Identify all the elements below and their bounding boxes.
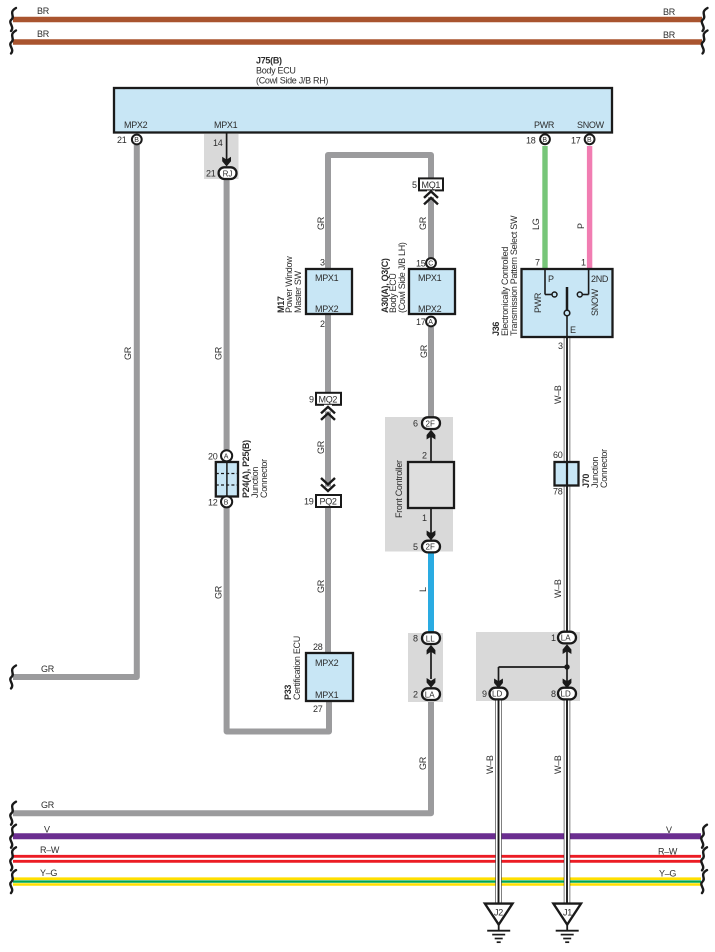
svg-text:W–B: W–B	[553, 385, 563, 404]
svg-text:60: 60	[553, 450, 563, 460]
connector MQ1 (5)	[412, 178, 443, 190]
pin 17 (A) of A30	[416, 317, 436, 327]
svg-text:Y–G: Y–G	[40, 868, 57, 878]
svg-text:Connector: Connector	[259, 459, 269, 498]
svg-text:2: 2	[413, 690, 418, 700]
svg-text:L: L	[418, 587, 428, 592]
wire GR (M17 pin2 down through MQ2/PQ2 to P33 pin 28)	[316, 314, 328, 653]
svg-text:27: 27	[313, 704, 323, 714]
svg-text:W–B: W–B	[485, 755, 495, 774]
svg-text:3: 3	[320, 258, 325, 268]
svg-text:RJ: RJ	[223, 169, 233, 178]
svg-text:C: C	[428, 261, 433, 268]
wire GR (col B: RJ down, right, up to P33 pin 27)	[214, 178, 330, 732]
svg-text:9: 9	[309, 394, 314, 404]
Front Controller block	[394, 430, 454, 540]
svg-text:3: 3	[558, 341, 563, 351]
svg-text:1: 1	[422, 513, 427, 523]
shaded area (Front Controller)	[385, 417, 453, 552]
svg-text:R–W: R–W	[40, 845, 60, 855]
connector MQ2 (9)	[309, 393, 341, 405]
connector 1 (LA) right column	[551, 632, 576, 644]
svg-text:Body ECU: Body ECU	[256, 66, 296, 76]
svg-text:LA: LA	[425, 690, 435, 699]
svg-text:LL: LL	[426, 634, 435, 643]
svg-text:2: 2	[422, 451, 427, 461]
svg-text:E: E	[570, 325, 576, 335]
junction connector P24(A), P25(B)	[208, 440, 269, 508]
pin 17 (B) SNOW of J75	[571, 134, 594, 145]
wire GR (LA down, left to edge - bottom GR bus)	[10, 699, 431, 825]
svg-text:GR: GR	[419, 344, 429, 358]
svg-text:5: 5	[412, 180, 417, 190]
wire W-B (J36 pin3 to J70 to 1 LA)	[553, 338, 569, 632]
svg-text:B: B	[542, 137, 547, 144]
svg-text:MQ2: MQ2	[319, 394, 338, 404]
svg-text:1: 1	[581, 258, 586, 268]
svg-text:LD: LD	[561, 690, 571, 699]
svg-text:A: A	[224, 454, 229, 461]
wire LG (J75 PWR pin 18 to J36 pin 7)	[531, 146, 545, 269]
svg-text:V: V	[44, 825, 50, 835]
svg-text:W–B: W–B	[553, 755, 563, 774]
wire GR (col C top: M17 pin3 up, right to MQ1)	[316, 155, 431, 269]
svg-text:B: B	[134, 137, 139, 144]
svg-text:J2: J2	[494, 908, 503, 918]
svg-text:Transmission Pattern Select SW: Transmission Pattern Select SW	[509, 215, 519, 336]
svg-text:GR: GR	[418, 216, 428, 230]
svg-text:20: 20	[208, 452, 218, 462]
svg-text:15: 15	[416, 259, 426, 269]
pin 14 stub and arrow to RJ	[213, 132, 231, 167]
arrow up into LA, junction and branches to LD	[494, 644, 571, 688]
svg-text:BR: BR	[37, 29, 50, 39]
svg-text:MPX2: MPX2	[418, 304, 442, 314]
svg-text:BR: BR	[663, 30, 676, 40]
junction connector J70	[553, 449, 609, 497]
wire P (J75 SNOW pin 17 to J36 pin 1)	[576, 146, 590, 269]
svg-text:MPX1: MPX1	[315, 690, 339, 700]
svg-text:Certification ECU: Certification ECU	[292, 636, 302, 700]
ECU J75(B) Body ECU (Cowl Side J/B RH)	[114, 56, 612, 133]
svg-text:GR: GR	[214, 346, 224, 360]
switch M17 Power Window Master SW	[276, 256, 352, 329]
svg-text:SNOW: SNOW	[577, 120, 605, 130]
svg-text:14: 14	[213, 138, 223, 148]
svg-text:BR: BR	[663, 7, 676, 17]
wire BR (top bus 1)	[10, 6, 707, 31]
svg-text:P: P	[548, 274, 554, 284]
svg-text:Connector: Connector	[599, 449, 609, 488]
svg-text:17: 17	[571, 136, 581, 146]
wire L (blue: Front Controller 5 2F to 8 LL)	[418, 552, 431, 632]
svg-text:78: 78	[553, 487, 563, 497]
svg-text:J1: J1	[563, 908, 572, 918]
svg-text:(Cowl Side J/B LH): (Cowl Side J/B LH)	[397, 242, 407, 313]
wire Y-G (yellow/green bus)	[10, 868, 707, 893]
svg-text:18: 18	[526, 136, 536, 146]
svg-text:GR: GR	[123, 346, 133, 360]
svg-text:5: 5	[413, 542, 418, 552]
pin 21 (B) of J75	[117, 135, 142, 145]
svg-text:MQ1: MQ1	[422, 180, 441, 190]
wire W-B (9 LD down to ground J2)	[485, 699, 500, 903]
svg-text:MPX1: MPX1	[418, 273, 442, 283]
wire V (purple bus)	[10, 825, 707, 848]
connector 8 (LL)	[413, 632, 440, 644]
shaded area (LL/LA column)	[408, 633, 443, 702]
connector RJ (21)	[206, 167, 237, 179]
svg-text:A: A	[428, 319, 433, 326]
pin 15 (C) of A30	[416, 258, 436, 268]
svg-text:Front Controller: Front Controller	[394, 460, 404, 518]
svg-text:BR: BR	[37, 6, 50, 16]
svg-text:MPX2: MPX2	[315, 304, 339, 314]
svg-text:17: 17	[416, 317, 426, 327]
svg-text:LD: LD	[492, 690, 502, 699]
chevrons below MQ2	[321, 405, 335, 420]
connector 8 (LD)	[551, 688, 576, 700]
pin 18 (B) PWR of J75	[526, 134, 550, 145]
svg-text:LA: LA	[561, 634, 571, 643]
svg-text:2ND: 2ND	[591, 274, 609, 284]
wire R-W (red/white bus)	[10, 845, 707, 870]
svg-text:2F: 2F	[426, 419, 435, 428]
svg-text:B: B	[587, 137, 592, 144]
connector 9 (LD)	[482, 688, 508, 700]
connector PQ2 (19)	[304, 495, 341, 507]
svg-text:PWR: PWR	[534, 120, 555, 130]
wire BR (top bus 2)	[10, 29, 707, 54]
wire GR (A30 pin17 A down to Front Controller 2F)	[419, 327, 431, 418]
svg-text:J75(B): J75(B)	[256, 56, 282, 66]
svg-text:8: 8	[551, 689, 556, 699]
wire GR (col A: J75 pin 21 MPX2 down and left to edge)	[10, 145, 137, 689]
connector 6 (2F) top of Front Controller	[413, 417, 440, 429]
svg-text:9: 9	[482, 689, 487, 699]
svg-text:GR: GR	[316, 216, 326, 230]
svg-text:28: 28	[313, 642, 323, 652]
svg-text:7: 7	[535, 258, 540, 268]
svg-text:R–W: R–W	[658, 847, 678, 857]
svg-text:PWR: PWR	[533, 292, 543, 313]
ECU P33 Certification ECU	[283, 636, 353, 714]
connector 2 (LA)	[413, 688, 440, 700]
shaded area (J75 pin14 to RJ)	[204, 134, 239, 179]
svg-text:GR: GR	[316, 579, 326, 593]
svg-text:MPX1: MPX1	[315, 273, 339, 283]
shaded area (LA/LD block)	[476, 632, 580, 701]
svg-text:PQ2: PQ2	[320, 497, 337, 507]
svg-text:Master SW: Master SW	[293, 270, 303, 313]
svg-text:2: 2	[320, 319, 325, 329]
svg-text:MPX2: MPX2	[124, 120, 148, 130]
svg-text:SNOW: SNOW	[590, 288, 600, 316]
ground J1	[553, 904, 581, 943]
chevrons below MQ1	[424, 191, 438, 205]
svg-text:GR: GR	[41, 800, 55, 810]
svg-text:W–B: W–B	[553, 579, 563, 598]
svg-text:GR: GR	[418, 756, 428, 770]
svg-text:V: V	[666, 825, 672, 835]
switch J36 Electronically Controlled Transmission Pattern Select SW	[491, 215, 613, 351]
svg-text:B: B	[224, 500, 229, 507]
svg-text:12: 12	[208, 498, 218, 508]
svg-text:21: 21	[117, 135, 127, 145]
chevrons above PQ2	[321, 478, 335, 495]
svg-text:MPX2: MPX2	[315, 658, 339, 668]
svg-text:MPX1: MPX1	[214, 120, 238, 130]
wire W-B (8 LD down to ground J1)	[553, 699, 569, 903]
svg-text:Y–G: Y–G	[659, 869, 676, 879]
ECU A30(A) Q3(C) Body ECU (Cowl Side J/B LH)	[380, 242, 455, 314]
svg-text:8: 8	[413, 634, 418, 644]
svg-text:P: P	[576, 223, 586, 229]
arrows between LL and LA	[427, 645, 436, 688]
svg-text:19: 19	[304, 497, 314, 507]
svg-text:1: 1	[551, 633, 556, 643]
svg-text:GR: GR	[316, 440, 326, 454]
svg-text:GR: GR	[41, 664, 55, 674]
svg-text:GR: GR	[214, 585, 224, 599]
ground J2	[485, 904, 513, 943]
svg-text:21: 21	[206, 169, 216, 179]
connector 5 (2F) bottom of Front Controller	[413, 541, 440, 553]
svg-text:2F: 2F	[426, 543, 435, 552]
svg-text:6: 6	[413, 419, 418, 429]
svg-text:(Cowl Side J/B RH): (Cowl Side J/B RH)	[256, 76, 328, 86]
svg-text:LG: LG	[531, 218, 541, 230]
